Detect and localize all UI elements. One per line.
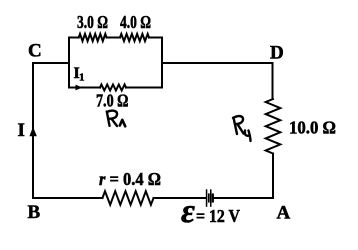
handwritten label R4 (script R with subscript 4) <box>233 116 251 141</box>
wire: between R1 and R2 <box>107 37 120 39</box>
wire: parallel box right edge <box>161 38 163 88</box>
svg-text:I: I <box>18 120 25 141</box>
resistor R2 4.0 ohm (zigzag) <box>120 34 149 41</box>
wire: parallel combination to node D <box>162 62 273 64</box>
wire: bottom branch lead-in <box>69 87 100 89</box>
current arrow I (upward, on left branch) <box>29 127 37 136</box>
svg-text:= 12 V: = 12 V <box>196 206 240 226</box>
svg-text:A: A <box>277 203 291 224</box>
wire: top branch lead-out <box>149 37 162 39</box>
svg-text:7.0 Ω: 7.0 Ω <box>96 91 129 111</box>
wire: parallel box left edge <box>68 38 70 88</box>
svg-text:B: B <box>28 202 41 223</box>
handwritten label RA (script R with subscript A) <box>107 111 117 126</box>
current arrow I1 (rightward, on 7-ohm branch) <box>76 85 83 91</box>
wire: left branch C to B (vertical) <box>32 63 34 198</box>
svg-text:C: C <box>28 41 42 62</box>
wire: bottom branch lead-out <box>126 87 162 89</box>
wire: node C to parallel combination (left lead) <box>33 62 69 64</box>
resistor r 0.4 ohm (zigzag) <box>103 191 154 205</box>
wire: node B to resistor r <box>33 197 103 199</box>
resistor R4 10.0 ohm (vertical zigzag) <box>266 99 281 154</box>
wire: node D down to R4 <box>272 63 274 99</box>
battery cell EMF 12V (plates) <box>206 189 214 207</box>
wire: top branch lead-in to R1 <box>69 37 79 39</box>
svg-text:r = 0.4 Ω: r = 0.4 Ω <box>99 169 161 189</box>
wire: resistor r to battery <box>154 197 206 199</box>
svg-text:4.0 Ω: 4.0 Ω <box>120 12 151 32</box>
handwritten subscript A of RA <box>120 120 125 127</box>
resistor RA 7.0 ohm (zigzag) <box>100 85 126 91</box>
resistor R1 3.0 ohm (zigzag) <box>79 34 107 41</box>
svg-text:3.0 Ω: 3.0 Ω <box>77 12 108 32</box>
svg-text:1: 1 <box>79 72 85 84</box>
svg-text:D: D <box>270 43 284 64</box>
svg-text:ε: ε <box>181 193 195 230</box>
wire: battery to node A <box>214 197 273 199</box>
svg-text:10.0 Ω: 10.0 Ω <box>289 118 336 138</box>
wire: R4 down to node A <box>272 154 274 199</box>
